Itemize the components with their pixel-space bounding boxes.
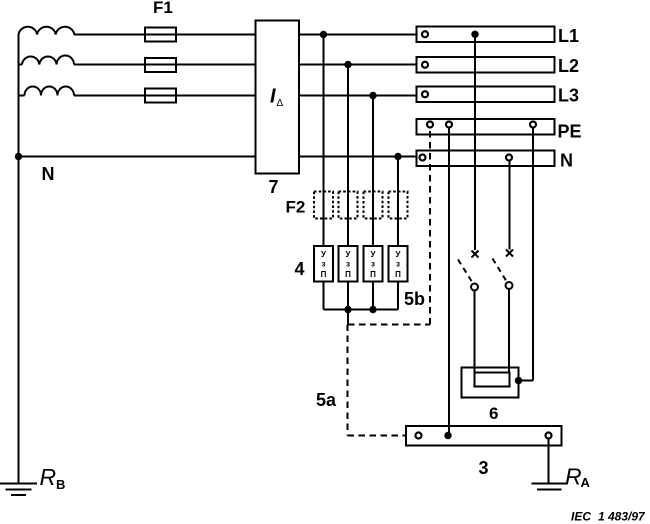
svg-text:1 483/97: 1 483/97 xyxy=(598,510,646,524)
svg-text:PE: PE xyxy=(558,122,582,142)
svg-text:П: П xyxy=(395,270,401,279)
svg-text:з: з xyxy=(371,260,375,269)
svg-text:П: П xyxy=(321,270,327,279)
svg-text:7: 7 xyxy=(269,177,279,197)
svg-text:Δ: Δ xyxy=(277,98,284,109)
svg-text:L3: L3 xyxy=(558,86,579,106)
svg-text:A: A xyxy=(581,475,591,490)
svg-text:5b: 5b xyxy=(404,289,425,309)
svg-text:П: П xyxy=(370,270,376,279)
svg-text:3: 3 xyxy=(479,458,489,478)
svg-text:L1: L1 xyxy=(558,26,579,46)
svg-text:5a: 5a xyxy=(316,390,337,410)
svg-text:F2: F2 xyxy=(286,198,306,217)
svg-text:N: N xyxy=(42,164,55,184)
svg-text:6: 6 xyxy=(489,404,498,423)
svg-text:R: R xyxy=(40,464,57,490)
svg-text:IEC: IEC xyxy=(571,510,591,524)
svg-text:з: з xyxy=(396,260,400,269)
svg-text:4: 4 xyxy=(295,259,305,279)
svg-text:L2: L2 xyxy=(558,56,579,76)
svg-text:N: N xyxy=(560,151,573,171)
svg-text:B: B xyxy=(56,477,65,492)
svg-text:з: з xyxy=(346,260,350,269)
svg-text:F1: F1 xyxy=(153,0,173,17)
svg-text:I: I xyxy=(270,86,276,108)
svg-text:П: П xyxy=(345,270,351,279)
svg-text:з: з xyxy=(322,260,326,269)
svg-text:R: R xyxy=(565,464,582,490)
